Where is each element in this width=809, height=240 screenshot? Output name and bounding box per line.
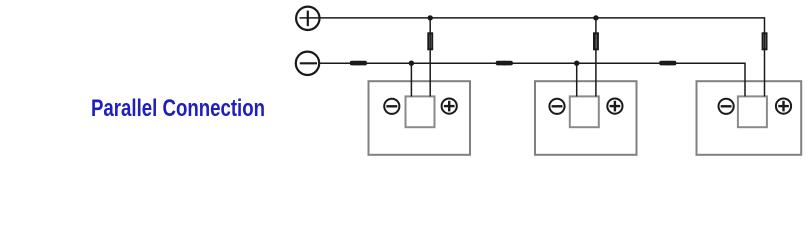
svg-text:Parallel Connection: Parallel Connection bbox=[91, 95, 265, 122]
